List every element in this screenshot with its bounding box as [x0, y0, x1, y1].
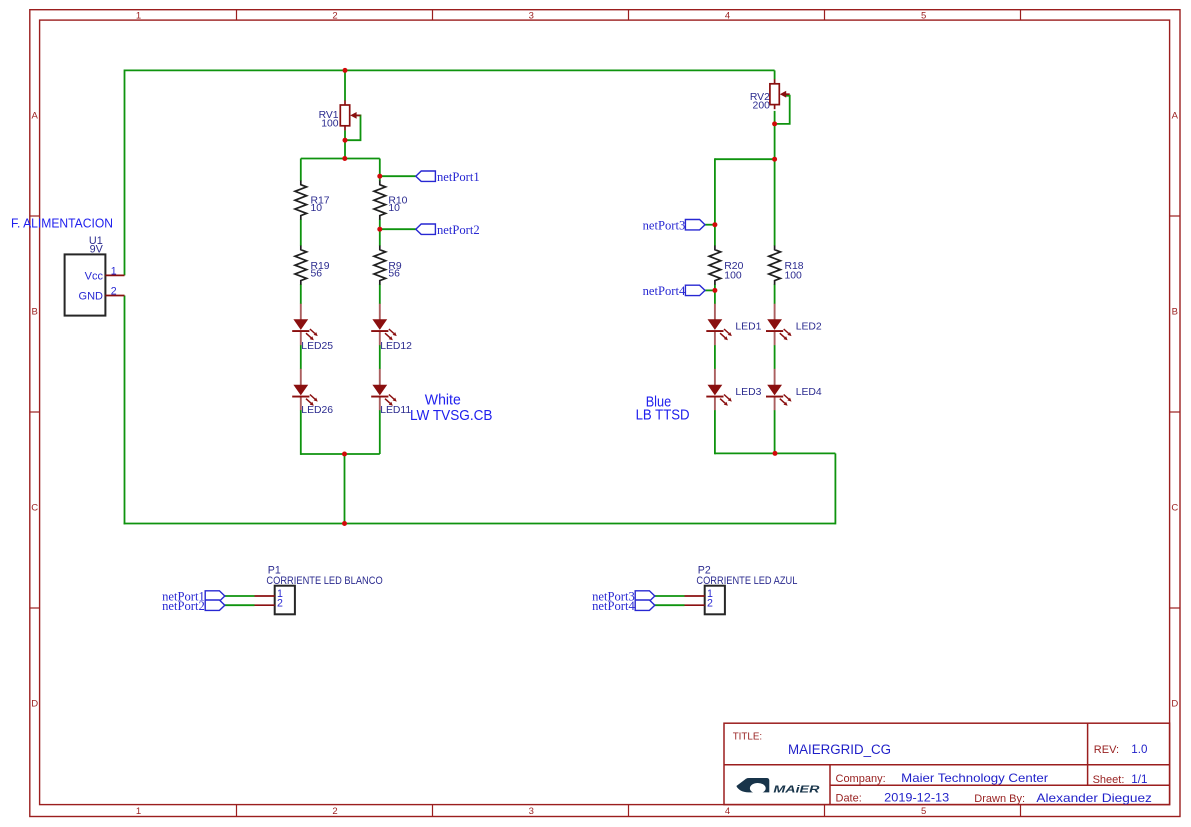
connector P1 body	[275, 586, 295, 615]
wire blue right col seg3	[774, 345, 776, 369]
svg-text:5: 5	[921, 10, 926, 21]
svg-text:10: 10	[311, 203, 323, 214]
svg-text:2019-12-13: 2019-12-13	[884, 791, 949, 804]
wire blue left col seg1	[714, 158, 716, 246]
junction blue bottom bus	[773, 451, 778, 456]
svg-text:LED12: LED12	[380, 341, 412, 352]
junction top bus / RV1	[343, 68, 348, 73]
wire blue bank bottom bus	[715, 452, 836, 454]
wire white bank top bus	[301, 158, 380, 160]
column tick top 2	[432, 10, 434, 20]
global label netPort3	[685, 220, 705, 230]
svg-text:10: 10	[388, 203, 400, 214]
junction netPort3	[712, 222, 717, 227]
LED LED12 cathode bar	[371, 330, 388, 332]
svg-text:Company:: Company:	[836, 773, 886, 785]
svg-text:LED11: LED11	[380, 405, 411, 416]
wire RV2 bottom to junction	[774, 111, 776, 160]
wire white right col seg1	[379, 159, 381, 182]
column tick top 4	[824, 10, 826, 20]
title block divider horizontal 2	[830, 784, 1170, 786]
svg-text:netPort4: netPort4	[592, 599, 635, 613]
wire blue branch horizontal	[715, 158, 776, 160]
svg-text:CORRIENTE LED AZUL: CORRIENTE LED AZUL	[696, 575, 797, 587]
LED LED2 light arrows	[780, 329, 792, 340]
junction RV1 wiper	[343, 138, 348, 143]
svg-text:2: 2	[111, 285, 117, 297]
LED LED11 triangle	[372, 385, 387, 396]
svg-text:B: B	[1172, 307, 1178, 318]
LED LED26 light arrows	[306, 395, 318, 406]
svg-text:B: B	[32, 307, 38, 318]
potentiometer RV1 wiper arrow	[350, 112, 356, 119]
component U1 body	[65, 254, 106, 315]
svg-text:1: 1	[111, 265, 117, 277]
svg-text:100: 100	[724, 270, 742, 281]
svg-text:56: 56	[311, 269, 323, 280]
svg-text:LED4: LED4	[796, 387, 822, 398]
wire RV2 wiper return	[775, 96, 790, 124]
LED LED12 anode pin	[379, 304, 381, 321]
wire white left col seg1	[300, 159, 302, 182]
svg-text:3: 3	[529, 806, 534, 817]
LED LED2 anode pin	[774, 304, 776, 321]
resistor R9	[374, 246, 386, 285]
LED LED11 cathode pin	[379, 398, 381, 411]
wire netPort3 to P2 pin1	[655, 595, 685, 597]
LED LED11 light arrows	[385, 395, 397, 406]
row tick left 3	[30, 607, 40, 609]
wire netPort2 stub	[380, 228, 416, 230]
LED LED25 light arrows	[306, 329, 318, 340]
svg-text:Maier Technology Center: Maier Technology Center	[901, 772, 1048, 785]
wire RV1 wiper return	[345, 115, 361, 140]
svg-text:Drawn By:: Drawn By:	[974, 793, 1025, 805]
LED LED4 anode pin	[774, 369, 776, 386]
junction white top bus	[342, 156, 347, 161]
resistor R20	[709, 246, 721, 285]
row tick right 1	[1170, 215, 1180, 217]
svg-text:A: A	[1172, 111, 1179, 122]
wire left GND drop	[124, 296, 126, 525]
LED LED4 light arrows	[780, 395, 792, 406]
svg-text:MAIERGRID_CG: MAIERGRID_CG	[788, 742, 891, 758]
P1 pin 1	[255, 595, 275, 597]
potentiometer RV2 bottom pin	[774, 105, 776, 110]
svg-text:netPort3: netPort3	[643, 218, 686, 232]
wire top bus	[125, 69, 775, 71]
svg-text:56: 56	[388, 269, 400, 280]
svg-text:netPort4: netPort4	[643, 284, 686, 298]
wire white right col seg5	[379, 410, 381, 454]
junction netPort4	[712, 288, 717, 293]
wire white right col seg2	[379, 219, 381, 246]
junction netPort2	[377, 227, 382, 232]
svg-text:2: 2	[277, 598, 283, 610]
wire white left col seg5	[300, 410, 302, 455]
svg-text:White: White	[425, 392, 461, 409]
LED LED25 triangle	[293, 319, 308, 330]
svg-text:GND: GND	[79, 291, 104, 303]
column tick bottom 4	[824, 805, 826, 817]
LED LED25 anode pin	[300, 304, 302, 321]
wire blue left col seg2	[714, 284, 716, 304]
column tick bottom 1	[236, 805, 238, 817]
junction white bottom bus	[342, 452, 347, 457]
resistor R17	[295, 181, 307, 220]
LED LED1 light arrows	[720, 329, 732, 340]
LED LED12 cathode pin	[379, 332, 381, 345]
LED LED3 triangle	[708, 385, 723, 396]
P2 pin 1	[685, 595, 705, 597]
svg-text:4: 4	[725, 10, 730, 21]
svg-text:LB TTSD: LB TTSD	[636, 408, 690, 424]
svg-text:LED25: LED25	[301, 341, 333, 352]
svg-text:netPort1: netPort1	[437, 170, 480, 184]
LED LED11 cathode bar	[371, 396, 388, 398]
LED LED26 triangle	[293, 385, 308, 396]
svg-text:MAiER: MAiER	[773, 785, 820, 796]
title block divider vertical rev	[1087, 723, 1089, 785]
svg-text:2: 2	[707, 598, 713, 610]
LED LED12 triangle	[372, 319, 387, 330]
LED LED26 cathode pin	[300, 398, 302, 411]
svg-text:netPort2: netPort2	[437, 223, 480, 237]
svg-text:D: D	[1171, 699, 1178, 710]
svg-text:Date:: Date:	[836, 792, 862, 804]
LED LED26 anode pin	[300, 369, 302, 386]
wire white right col seg4	[379, 345, 381, 369]
potentiometer RV2 body	[770, 84, 779, 105]
LED LED3 light arrows	[720, 395, 732, 406]
global label netPort2	[205, 600, 225, 610]
resistor R19	[295, 246, 307, 285]
row tick right 3	[1170, 607, 1180, 609]
LED LED3 cathode bar	[706, 396, 723, 398]
column tick top 3	[628, 10, 630, 20]
LED LED25 cathode bar	[292, 330, 309, 332]
svg-text:1.0: 1.0	[1131, 743, 1147, 756]
svg-text:LW TVSG.CB: LW TVSG.CB	[410, 407, 493, 424]
LED LED3 cathode pin	[714, 398, 716, 411]
svg-text:REV:: REV:	[1094, 744, 1119, 756]
svg-text:Alexander Dieguez: Alexander Dieguez	[1036, 792, 1152, 805]
svg-text:C: C	[1171, 503, 1178, 514]
wire netPort1 to P1 pin1	[225, 595, 255, 597]
svg-text:Sheet:: Sheet:	[1093, 774, 1125, 786]
U1 pin 1 Vcc	[105, 274, 124, 276]
row tick right 2	[1170, 411, 1180, 413]
column tick top 5	[1020, 10, 1022, 20]
svg-text:1: 1	[136, 806, 141, 817]
svg-text:3: 3	[529, 10, 534, 21]
wire blue right col seg1	[774, 159, 776, 246]
svg-text:1/1: 1/1	[1131, 773, 1147, 786]
wire netPort2 to P1 pin2	[225, 604, 255, 606]
svg-text:C: C	[31, 503, 38, 514]
Maier logo swoosh cutout	[750, 783, 766, 794]
LED LED1 cathode pin	[714, 332, 716, 345]
LED LED11 anode pin	[379, 369, 381, 386]
svg-text:5: 5	[921, 806, 926, 817]
svg-text:4: 4	[725, 806, 730, 817]
wire white left col seg3	[300, 284, 302, 304]
LED LED26 cathode bar	[292, 396, 309, 398]
svg-text:CORRIENTE LED BLANCO: CORRIENTE LED BLANCO	[266, 575, 382, 587]
svg-text:D: D	[31, 699, 38, 710]
LED LED4 cathode pin	[774, 398, 776, 411]
svg-text:100: 100	[785, 270, 803, 281]
potentiometer RV1 top pin	[344, 100, 346, 105]
P2 pin 2	[685, 604, 705, 606]
wire white bottom drop	[344, 454, 346, 524]
LED LED2 triangle	[767, 319, 782, 330]
svg-text:200: 200	[753, 101, 771, 112]
wire blue bottom right drop	[834, 453, 836, 524]
svg-text:2: 2	[332, 806, 337, 817]
global label netPort4	[685, 285, 705, 295]
column tick bottom 5	[1020, 805, 1022, 817]
svg-text:netPort2: netPort2	[162, 599, 205, 613]
potentiometer RV1 body	[340, 105, 349, 126]
svg-text:100: 100	[321, 118, 339, 129]
wire netPort4 to P2 pin2	[655, 604, 685, 606]
resistor R18	[769, 246, 781, 285]
global label netPort1	[416, 171, 436, 181]
wire RV2 top	[774, 70, 776, 79]
title block divider vertical logo	[829, 765, 831, 805]
LED LED25 cathode pin	[300, 332, 302, 345]
potentiometer RV1 bottom pin	[344, 126, 346, 131]
wire white left col seg2	[300, 219, 302, 246]
svg-text:2: 2	[332, 10, 337, 21]
wire RV1 top	[344, 70, 346, 100]
potentiometer RV2 top pin	[774, 79, 776, 84]
LED LED1 cathode bar	[706, 330, 723, 332]
Maier logo mark	[736, 778, 769, 792]
column tick bottom 2	[432, 805, 434, 817]
column tick bottom 3	[628, 805, 630, 817]
P1 pin 2	[255, 604, 275, 606]
wire netPort3 stub	[705, 224, 715, 226]
connector P2 body	[705, 586, 725, 615]
row tick left 1	[30, 215, 40, 217]
row tick left 2	[30, 411, 40, 413]
svg-text:A: A	[32, 111, 39, 122]
LED LED4 triangle	[767, 385, 782, 396]
U1 pin 2 GND	[105, 295, 124, 297]
junction bottom bus	[342, 521, 347, 526]
LED LED3 anode pin	[714, 369, 716, 386]
svg-text:LED1: LED1	[735, 321, 761, 332]
resistor R10	[374, 181, 386, 220]
wire bottom bus	[124, 523, 836, 525]
wire blue left col seg3	[714, 345, 716, 369]
potentiometer RV2 wiper arrow	[780, 91, 786, 98]
svg-text:LED26: LED26	[301, 405, 333, 416]
LED LED4 cathode bar	[766, 396, 783, 398]
wire white right col seg3	[379, 284, 381, 304]
global label netPort2	[416, 224, 436, 234]
wire blue right col seg4	[774, 410, 776, 453]
wire left Vcc riser	[124, 70, 126, 276]
junction netPort1	[377, 174, 382, 179]
column tick top 1	[236, 10, 238, 20]
svg-text:LED2: LED2	[796, 321, 822, 332]
title block outline	[724, 723, 1170, 804]
junction blue branch	[772, 157, 777, 162]
wire blue right col seg2	[774, 284, 776, 304]
svg-text:TITLE:: TITLE:	[733, 732, 762, 743]
global label netPort4	[635, 600, 655, 610]
LED LED1 triangle	[708, 319, 723, 330]
wire netPort4 stub	[705, 289, 715, 291]
wire blue left col seg4	[714, 410, 716, 454]
wire white bank bottom bus	[301, 453, 380, 455]
junction RV2 wiper	[772, 121, 777, 126]
wire RV1 bottom to junction	[344, 130, 346, 159]
LED LED2 cathode pin	[774, 332, 776, 345]
global label netPort1	[205, 591, 225, 601]
LED LED12 light arrows	[385, 329, 397, 340]
LED LED2 cathode bar	[766, 330, 783, 332]
LED LED1 anode pin	[714, 304, 716, 321]
wire netPort1 stub	[380, 175, 416, 177]
svg-text:F. ALIMENTACION: F. ALIMENTACION	[11, 215, 113, 230]
svg-text:9V: 9V	[90, 244, 104, 256]
svg-text:Vcc: Vcc	[85, 270, 104, 282]
global label netPort3	[635, 591, 655, 601]
title block divider horizontal 1	[724, 764, 1170, 766]
svg-text:1: 1	[136, 10, 141, 21]
svg-text:LED3: LED3	[735, 387, 761, 398]
wire white left col seg4	[300, 345, 302, 369]
